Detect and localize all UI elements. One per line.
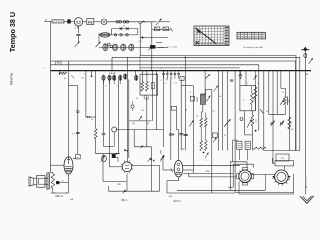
box coil [250, 93, 253, 105]
wire drop 135 stub [135, 71, 137, 76]
svg-text:u.s.w. 1400: u.s.w. 1400 [167, 46, 178, 48]
wire drop 151 [151, 147, 153, 191]
blob near V2 [112, 154, 115, 157]
wire [108, 186, 110, 191]
res horizontal [253, 147, 266, 149]
contacts row3 [114, 34, 116, 36]
wire jog 205-211 [206, 89, 212, 91]
wire row2b [152, 29, 172, 31]
wire [305, 189, 307, 195]
caps cluster [163, 71, 165, 74]
can K1 [103, 44, 108, 51]
svg-text:ECH 4: ECH 4 [174, 201, 181, 203]
osc coil pair 2a [200, 141, 203, 151]
wire V2 left drop [108, 154, 110, 167]
res 255 [254, 87, 257, 98]
wire antenna lead [45, 21, 53, 23]
box on 193 [190, 96, 194, 101]
arrow under bus 2 [254, 75, 257, 79]
wire rail 153 [96, 153, 120, 155]
res 289 [288, 117, 291, 129]
socket S1 loop [233, 164, 253, 187]
grid box V1 [76, 155, 81, 159]
cap on 170 [169, 133, 173, 135]
wire drop 295 [295, 61, 297, 151]
wire y129 long [116, 129, 164, 131]
wire box lead [239, 71, 241, 86]
wire [78, 36, 80, 43]
wire drop 103 [103, 80, 105, 133]
tick [71, 75, 74, 78]
bus main thick [51, 70, 312, 72]
IFT1 hook [144, 95, 149, 99]
cap 231 [230, 79, 233, 81]
wire row4 [99, 46, 164, 48]
svg-text:+G: +G [70, 198, 73, 201]
cathode glyph [56, 181, 59, 184]
wire drop 152 [152, 71, 154, 121]
svg-text:L2 L2: L2 L2 [110, 73, 116, 75]
wire drop 163 [163, 71, 165, 147]
wire bracket [281, 89, 286, 97]
wire drop 232 [232, 140, 234, 162]
IFT1 lead b [146, 71, 148, 82]
bus E [140, 67, 240, 69]
wire jog 68-77 [69, 85, 78, 87]
wire row2 [112, 28, 138, 30]
wire tube V1 bottom [68, 174, 70, 193]
wire drop 247 [247, 150, 249, 161]
speaker [29, 177, 34, 186]
output transformer core [47, 173, 50, 189]
wire drop 205 [204, 71, 206, 94]
arrow osc [207, 96, 211, 102]
socket S1 [239, 170, 251, 182]
IFT1 lead a [141, 71, 143, 82]
label 75 [55, 61, 61, 64]
wire V2 mid [103, 181, 126, 183]
wire drop 227 [227, 71, 229, 151]
junction busB [185, 57, 187, 59]
tick row2 end [171, 28, 173, 32]
loop box [171, 106, 176, 110]
tube V2 socket [122, 162, 132, 172]
socket S2 box [275, 161, 294, 166]
arrow 192 [189, 120, 193, 126]
wire jog 85-95 [86, 116, 96, 118]
wire [95, 139, 97, 154]
wire drop 167 [166, 78, 168, 81]
tube V1 electrodes [68, 157, 70, 164]
wire drop 85 [85, 71, 87, 117]
contact pair 40 [108, 43, 111, 46]
wire riser2 [111, 29, 113, 35]
wire V1 riser [68, 61, 70, 157]
tube V1 envelope [64, 157, 73, 174]
osc coil pair 2b [205, 141, 208, 151]
wire drop 280 [280, 71, 282, 89]
wire drop 263 [263, 71, 265, 151]
wire drop 156 [156, 71, 158, 130]
arrow at plug [309, 58, 313, 64]
svg-text:100: 100 [291, 122, 293, 125]
wire drop 252 [251, 111, 253, 115]
svg-text:L 42: L 42 [75, 27, 80, 30]
arrow cap 281b [280, 121, 284, 126]
arrow V3 [160, 156, 164, 162]
wire drop 170 [170, 78, 172, 161]
bus A [140, 54, 296, 56]
bus B [112, 57, 300, 150]
bus C [51, 60, 296, 62]
anchor glyph [123, 190, 126, 194]
wire [107, 21, 157, 23]
wire [159, 21, 170, 23]
wire row3b [140, 37, 168, 39]
osc box [240, 86, 256, 111]
wire left drop [50, 22, 52, 173]
box arrow 213 [213, 133, 218, 137]
wire drop 277 [276, 71, 278, 115]
arrow 281 [280, 100, 284, 105]
wire drop 77 [77, 86, 79, 155]
can row b [108, 75, 111, 80]
svg-text:c: c [117, 86, 118, 88]
arrow y120 [139, 116, 142, 120]
wire V2 right [132, 164, 160, 166]
can row d [119, 75, 122, 80]
wire mid rail1 [184, 172, 234, 174]
cap on 77 [76, 131, 80, 133]
wire V2 below [126, 174, 128, 192]
dark cluster [148, 158, 152, 163]
switch arrow [156, 19, 162, 26]
svg-text:CBL 1: CBL 1 [121, 200, 128, 202]
circle glyph 132 [131, 105, 134, 108]
wire y120 [129, 120, 152, 122]
wire drop 211 [211, 90, 213, 194]
wire V3 left [163, 169, 174, 171]
wire jog 244-252 [245, 134, 253, 136]
cluster 163 [161, 155, 165, 160]
arrow under bus [206, 74, 211, 78]
wire drop 134 [133, 130, 135, 147]
arrow cap 249 [247, 119, 251, 127]
svg-text:Tempo 38 U: Tempo 38 U [8, 12, 17, 52]
arrow cap 272 [271, 121, 275, 126]
wire lamp drop [78, 26, 80, 34]
socket S2 [275, 170, 289, 184]
wire drop 176 [176, 110, 178, 130]
bottom right rail [264, 150, 300, 152]
wire drop busB left [111, 57, 113, 70]
cap mains [76, 33, 80, 35]
switch box a4 [163, 27, 169, 31]
cap on 185 [183, 133, 187, 135]
small tube circle [112, 127, 117, 132]
wire drop busA left [139, 55, 141, 70]
switch x2 [126, 27, 129, 30]
tube V3 electrodes [177, 163, 180, 166]
wire drop busA right [295, 55, 297, 150]
svg-text:(2): (2) [132, 123, 135, 125]
cap on 181 [179, 133, 183, 135]
switch x1 [120, 27, 123, 30]
arrow mains switch [75, 42, 80, 48]
wire drop 146 [146, 95, 148, 147]
coil near V2 [102, 155, 107, 161]
wire jog 181-193 [181, 85, 193, 87]
big arrow [224, 119, 230, 126]
cap stub [91, 71, 93, 75]
circle glyph 241 [240, 118, 243, 121]
tube V3 envelope [174, 160, 183, 177]
bottom wire V1 [51, 192, 69, 194]
IFT1 cap [151, 83, 154, 89]
wire drop 218 [218, 71, 220, 151]
mains plug [304, 48, 306, 71]
can row e [124, 74, 127, 79]
bottom cluster 205 [203, 152, 205, 154]
output transformer coil [51, 174, 55, 189]
wire drop 289 [288, 71, 290, 151]
wire trafo top [52, 173, 54, 174]
svg-text:+G: +G [169, 195, 172, 198]
wire drop 118 [118, 80, 120, 153]
can mid [135, 75, 138, 80]
wire rail 114 [269, 113, 286, 115]
chassis ground [300, 196, 314, 204]
lamp L42 [74, 18, 82, 26]
wire drop 193 [193, 86, 195, 174]
wire jog 232 [233, 139, 238, 141]
wire [83, 21, 87, 23]
wire S2 right [293, 174, 295, 194]
wire drop 268 [268, 71, 270, 115]
wire mid rail2 [189, 176, 236, 178]
svg-text:(2): (2) [147, 123, 150, 125]
fuse box FS [87, 19, 94, 25]
can row a [102, 75, 105, 80]
switch contacts [116, 21, 119, 24]
svg-text:50: 50 [252, 122, 254, 124]
wire riser [137, 29, 139, 35]
svg-text:FS: FS [88, 20, 93, 24]
wire riser3 [151, 22, 153, 71]
svg-text:Pot.abgleich bei 468: Pot.abgleich bei 468 [243, 46, 264, 49]
hatch box s1 [237, 141, 242, 149]
IFT1 coil b [146, 82, 149, 92]
wire rail 146 [104, 145, 114, 147]
terminal strip [237, 32, 266, 39]
switch box a3 [154, 27, 160, 31]
svg-text:b: b [105, 86, 106, 88]
bottom rail right [239, 193, 293, 195]
wire row3 [99, 34, 138, 36]
wire drop 235 [234, 71, 236, 193]
can K2 [113, 44, 118, 51]
wire [94, 21, 101, 23]
wire drop 95 [95, 71, 97, 129]
wire V2 bottom rail [109, 190, 160, 192]
box 150 [276, 154, 289, 161]
wire osc down [202, 105, 204, 113]
svg-text:L50: L50 [256, 120, 258, 123]
osc coil pair 1a [200, 118, 203, 127]
hook contact [139, 21, 146, 24]
wire drop 222 [222, 71, 224, 151]
wire drop 125-v2 [127, 57, 129, 162]
svg-text:UBL 21: UBL 21 [55, 196, 63, 198]
bottom rail right 2 [235, 191, 293, 193]
bus junction dots [59, 70, 60, 71]
wire [158, 46, 168, 48]
box 1D [180, 76, 184, 80]
wire trafo bottom [52, 188, 54, 193]
dial alignment chart [194, 26, 229, 46]
wire [64, 21, 74, 23]
wire riser4 [98, 33, 100, 43]
IFT1 box [140, 74, 158, 95]
wire drop 128 [128, 79, 130, 158]
wire riser 140 [139, 24, 141, 56]
coil oval [100, 33, 110, 37]
svg-text:2x: 2x [64, 78, 66, 80]
can drops [103, 81, 105, 84]
cap dot [240, 71, 242, 75]
coil L50 [251, 115, 254, 126]
wire [285, 105, 287, 114]
wire V1 box riser [76, 110, 79, 113]
wire drop 181 [180, 81, 182, 151]
arrow 215 [214, 86, 219, 92]
svg-text:4: 4 [164, 83, 165, 85]
wires speaker-transformer [45, 177, 48, 179]
wire V2 left [109, 166, 122, 168]
osc densecoil [201, 94, 206, 105]
can K3 [121, 44, 126, 51]
coil 285 [284, 97, 287, 106]
svg-text:mc: mc [72, 134, 75, 136]
wire drop 305b [304, 71, 306, 176]
lamp with X [101, 19, 107, 25]
wire S1-S2 [251, 174, 274, 176]
wire V1 grid left [51, 164, 65, 166]
wire drop 244 [244, 111, 246, 135]
wire drop 185 [184, 57, 186, 150]
resistor R-line hatched [52, 20, 64, 23]
bus D [51, 65, 259, 131]
wire drop 109 [109, 80, 111, 153]
resistor mid-left [94, 129, 97, 139]
wire V3 bottom [178, 177, 180, 181]
speaker box [37, 175, 45, 187]
wire drop 59 [59, 71, 61, 75]
osc coil pair 1b [205, 118, 208, 127]
wire drop 273 [272, 71, 274, 163]
dot 255 [255, 130, 257, 132]
scribble ms [59, 72, 67, 74]
svg-text:30000: 30000 [197, 97, 199, 102]
wire V3 right [183, 164, 240, 166]
arrow right drop [305, 176, 307, 189]
hatch box s2 [245, 141, 250, 149]
wire rail 146b [134, 146, 151, 148]
IFT1 coil a [141, 82, 144, 92]
tick 261 [260, 109, 263, 113]
switch blob [149, 45, 153, 51]
can K4 [129, 44, 134, 51]
junction block [68, 20, 71, 24]
dash label [156, 42, 162, 44]
arrow trim [96, 42, 101, 47]
svg-text:Minerva: Minerva [10, 73, 14, 85]
can row c [113, 75, 116, 80]
svg-text:m: m [77, 157, 79, 159]
svg-text:0,1: 0,1 [175, 83, 178, 85]
wire drop 237 [236, 140, 238, 141]
